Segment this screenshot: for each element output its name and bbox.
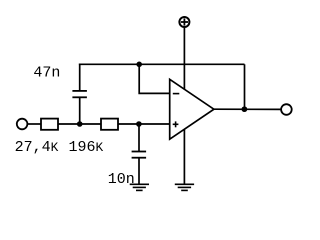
- node A junction dot: [77, 121, 83, 127]
- ground symbol under C2: [130, 184, 149, 190]
- output terminal circle: [281, 104, 292, 115]
- power wire down to op-amp: [183, 28, 185, 90]
- wire op-amp bottom to ground: [183, 129, 185, 184]
- value label 27,4K and 196K: [15, 139, 104, 156]
- input terminal circle: [17, 119, 28, 130]
- resistor R1 body: [41, 119, 58, 130]
- output junction dot: [242, 106, 248, 112]
- resistor R2 body: [101, 119, 118, 130]
- wire C2 down to ground: [138, 158, 140, 185]
- op-amp non-inverting input plus sign: [173, 121, 179, 127]
- wire feedback down to inverting input: [139, 64, 170, 93]
- op-amp U1 triangle: [170, 79, 214, 139]
- power supply symbol circle with plus: [179, 17, 189, 27]
- svg-text:27,4K: 27,4K: [15, 139, 59, 156]
- wire input to R1: [28, 123, 41, 125]
- capacitor C2 plates: [132, 152, 147, 158]
- wire feedback right vertical: [244, 64, 246, 109]
- top feedback wire: [79, 63, 245, 65]
- wire node A up to C1: [79, 97, 81, 124]
- wire R1 to R2 through node A: [58, 123, 101, 125]
- op-amp inverting input minus sign: [173, 93, 180, 95]
- wire R2 to op-amp plus input through node B: [118, 123, 170, 125]
- ground symbol under op-amp: [175, 184, 194, 190]
- top feedback junction dot: [136, 62, 142, 68]
- wire node B down to C2: [138, 124, 140, 152]
- wire C1 up to top feedback wire: [79, 64, 81, 91]
- value label 47n: [33, 65, 60, 82]
- svg-text:47n: 47n: [33, 65, 60, 82]
- node B junction dot: [136, 121, 142, 127]
- svg-text:196K: 196K: [69, 139, 104, 156]
- value label 10n: [108, 171, 135, 188]
- capacitor C1 plates: [72, 91, 87, 97]
- svg-text:10n: 10n: [108, 171, 135, 188]
- output wire: [214, 108, 281, 110]
